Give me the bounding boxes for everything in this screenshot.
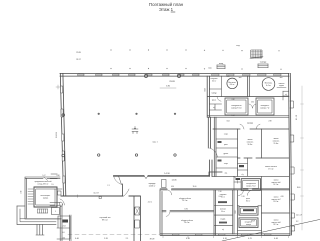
svg-text:вход: вход bbox=[236, 45, 239, 47]
door arc hall right wall bbox=[210, 148, 218, 157]
svg-text:11.72: 11.72 bbox=[93, 193, 99, 195]
svg-text:19.91: 19.91 bbox=[56, 131, 58, 137]
small room label bbox=[238, 164, 248, 171]
svg-text:0.98: 0.98 bbox=[57, 175, 60, 177]
svg-text:склад 28.5 м²: склад 28.5 м² bbox=[37, 183, 49, 186]
wall y129 bbox=[213, 128, 289, 130]
pipes below cluster bbox=[36, 225, 44, 235]
svg-text:с/у: с/у bbox=[285, 94, 287, 96]
bottom small cold boxes bbox=[215, 190, 235, 234]
hall left wall (double with windows) bbox=[60, 73, 66, 196]
diagonal leader line bbox=[222, 219, 320, 241]
svg-text:28.17: 28.17 bbox=[76, 59, 81, 61]
svg-text:Этаж 1: Этаж 1 bbox=[159, 7, 174, 12]
svg-text:6.08: 6.08 bbox=[205, 88, 207, 91]
left wall porch stubs bbox=[50, 174, 57, 179]
svg-text:29.89: 29.89 bbox=[76, 52, 81, 54]
svg-text:лит. 2-9: лит. 2-9 bbox=[296, 215, 302, 217]
cluster lower wall bbox=[20, 218, 61, 220]
svg-text:2.04: 2.04 bbox=[219, 196, 222, 198]
svg-text:отдыха: отдыха bbox=[279, 85, 284, 87]
right wall window tabs bbox=[290, 86, 304, 231]
right outer dimension line bbox=[301, 86, 304, 230]
entrance stair symbol 2 bbox=[258, 62, 268, 68]
svg-text:1.30: 1.30 bbox=[62, 238, 65, 240]
svg-text:14.30: 14.30 bbox=[164, 173, 170, 175]
svg-text:с/у: с/у bbox=[213, 107, 215, 109]
svg-text:6.40: 6.40 bbox=[75, 238, 79, 240]
svg-text:зал: зал bbox=[239, 77, 242, 79]
svg-text:тамб.: тамб. bbox=[208, 68, 212, 70]
wall below cold rooms bbox=[208, 116, 290, 118]
svg-text:сануз.: сануз. bbox=[224, 134, 229, 136]
svg-text:комната: комната bbox=[279, 83, 285, 85]
svg-text:3.04: 3.04 bbox=[227, 121, 230, 123]
entrance stair symbol 1 bbox=[217, 63, 225, 69]
svg-text:29.89: 29.89 bbox=[169, 81, 175, 83]
svg-text:камера 9.6 м²: камера 9.6 м² bbox=[231, 106, 242, 109]
bottom dimension ticks bbox=[163, 236, 289, 238]
stairs ticks below machine room bbox=[38, 209, 48, 213]
rooms in y177-193 strip bbox=[261, 176, 263, 190]
corridor wall y176 bbox=[114, 175, 290, 177]
svg-text:8.60: 8.60 bbox=[297, 187, 300, 189]
svg-text:2.04: 2.04 bbox=[62, 226, 65, 228]
wall y158 bbox=[238, 157, 290, 159]
room y158-176 divider bbox=[247, 158, 249, 176]
tick on bottom wall bbox=[77, 195, 79, 198]
hall grid dots row2 (hollow) bbox=[98, 154, 100, 156]
door arcs bottom block bbox=[167, 190, 252, 196]
door slot in wall under circle1 bbox=[231, 96, 235, 98]
svg-text:лестн.: лестн. bbox=[148, 202, 153, 204]
svg-text:сануз.: сануз. bbox=[224, 163, 229, 165]
bottom-left cluster outer walls bbox=[25, 177, 61, 219]
left column stack walls bbox=[233, 190, 235, 234]
svg-text:4.20: 4.20 bbox=[280, 196, 283, 198]
svg-text:4.45: 4.45 bbox=[227, 76, 230, 78]
svg-text:кор.: кор. bbox=[225, 173, 228, 175]
two rooms y129-158 divider bbox=[261, 129, 263, 158]
hall top wall (double line with window openings) bbox=[60, 73, 289, 76]
bottom block top wall bbox=[160, 189, 289, 191]
lower-left L corridor outer bbox=[17, 206, 56, 225]
bottom wall window slots bbox=[173, 234, 272, 235]
svg-text:холодильная: холодильная bbox=[246, 183, 256, 185]
middle column bottom wall bbox=[238, 230, 262, 232]
inner machine room (double wall) bbox=[34, 187, 57, 207]
svg-text:кладовая: кладовая bbox=[211, 78, 218, 80]
vertical wall pair bbox=[60, 205, 62, 241]
svg-text:17.5 м²: 17.5 м² bbox=[268, 168, 274, 171]
hatched stair block upper bbox=[250, 50, 263, 59]
lift boxes bbox=[135, 207, 140, 228]
svg-text:с/у: с/у bbox=[222, 229, 224, 231]
hall right wall bbox=[207, 76, 212, 176]
svg-text:с/у: с/у bbox=[241, 174, 243, 176]
underline under floor number bbox=[171, 11, 175, 13]
svg-text:жилая: жилая bbox=[274, 197, 279, 199]
svg-text:4.46: 4.46 bbox=[274, 238, 278, 240]
svg-text:кладов.: кладов. bbox=[220, 219, 226, 221]
building right wall bbox=[289, 73, 292, 235]
column circles on top wall bbox=[144, 74, 147, 77]
bottom block bottom wall bbox=[161, 234, 291, 236]
svg-text:39.09: 39.09 bbox=[150, 239, 155, 241]
svg-text:1.20: 1.20 bbox=[241, 196, 244, 198]
svg-text:пом. 1: пом. 1 bbox=[152, 142, 157, 144]
door arc right of machine room bbox=[60, 199, 65, 205]
cold box in strip bbox=[241, 179, 260, 191]
svg-text:6.4 м²: 6.4 м² bbox=[230, 83, 235, 86]
svg-text:89.5 м²: 89.5 м² bbox=[102, 219, 108, 222]
strip small room left of cold box bbox=[234, 176, 241, 190]
stub wall left of hall bottom corner bbox=[55, 188, 62, 190]
svg-text:жилая: жилая bbox=[274, 180, 279, 182]
title: Поэтажный план bbox=[149, 2, 184, 12]
middle column rooms x214-240 bbox=[214, 117, 237, 176]
svg-text:1.07: 1.07 bbox=[43, 175, 46, 177]
svg-text:тамбур: тамбур bbox=[260, 62, 267, 64]
wall under round rooms bbox=[208, 96, 290, 98]
svg-text:зал: зал bbox=[280, 77, 283, 79]
svg-text:2.1: 2.1 bbox=[126, 238, 129, 240]
svg-text:1.90: 1.90 bbox=[219, 191, 222, 193]
svg-text:11.60: 11.60 bbox=[193, 186, 197, 188]
svg-text:умыв.: умыв. bbox=[224, 144, 229, 146]
door arc left column bbox=[217, 97, 221, 102]
arcs between cold rooms bbox=[249, 104, 256, 108]
svg-text:3.2: 3.2 bbox=[296, 221, 298, 223]
door arc bottom wall bbox=[124, 189, 129, 196]
toilet ellipse bbox=[59, 202, 62, 206]
pilaster left of block bbox=[162, 180, 167, 188]
svg-text:вход: вход bbox=[219, 63, 224, 65]
svg-text:2.1: 2.1 bbox=[107, 185, 109, 187]
svg-text:камера 7 м²: камера 7 м² bbox=[260, 106, 270, 109]
svg-text:вентиляцион.: вентиляцион. bbox=[40, 195, 51, 197]
svg-text:0.90: 0.90 bbox=[251, 102, 254, 104]
svg-text:5.20: 5.20 bbox=[104, 238, 108, 240]
svg-text:4.0: 4.0 bbox=[62, 232, 64, 234]
svg-text:камера: камера bbox=[43, 197, 48, 199]
svg-text:6.08: 6.08 bbox=[235, 210, 237, 213]
bottom wall left faint bbox=[68, 234, 160, 236]
svg-text:16.2м²: 16.2м² bbox=[247, 143, 252, 146]
corridor north wall (hall bottom right) bbox=[114, 172, 223, 176]
round room 1 bbox=[227, 78, 238, 89]
svg-text:камера: камера bbox=[246, 224, 251, 226]
door arcs corridor bbox=[240, 124, 260, 129]
svg-text:моечная: моечная bbox=[220, 209, 226, 211]
svg-text:15.9м²: 15.9м² bbox=[273, 142, 278, 145]
small rooms right of cluster bbox=[52, 208, 71, 240]
svg-text:кладовая: кладовая bbox=[220, 194, 227, 196]
svg-text:14.06: 14.06 bbox=[171, 180, 177, 182]
svg-text:жилая: жилая bbox=[274, 220, 279, 222]
svg-text:умыв.: умыв. bbox=[212, 100, 217, 102]
svg-text:1Э: 1Э bbox=[52, 184, 55, 186]
dimension line inside hall left bbox=[160, 87, 176, 89]
left small mark bbox=[56, 85, 60, 89]
dark label in middle room bbox=[63, 220, 69, 223]
hall inner corner wall bbox=[122, 184, 124, 196]
hall center level mark bbox=[132, 127, 138, 134]
svg-text:39.09: 39.09 bbox=[251, 221, 255, 223]
svg-text:кухня: кухня bbox=[246, 198, 250, 200]
cluster door marks top bbox=[44, 177, 48, 181]
dimension ticks above hall bbox=[110, 49, 281, 69]
svg-text:4.25: 4.25 bbox=[248, 238, 252, 240]
hall top wall window marks bbox=[78, 74, 199, 76]
svg-text:2.98: 2.98 bbox=[269, 121, 272, 123]
svg-text:6.4 м²: 6.4 м² bbox=[266, 84, 271, 87]
svg-text:41.10: 41.10 bbox=[296, 114, 298, 120]
left wall window marks bbox=[61, 86, 65, 183]
svg-text:5: 5 bbox=[55, 211, 56, 213]
round room 2 bbox=[262, 78, 275, 91]
lift shaft walls bbox=[134, 196, 141, 241]
svg-text:24.4 м²: 24.4 м² bbox=[184, 221, 190, 224]
svg-text:тамбур: тамбур bbox=[211, 93, 216, 95]
svg-text:14.06 м²: 14.06 м² bbox=[149, 185, 156, 188]
second vertical wall pair bbox=[70, 215, 72, 241]
svg-text:коридор: коридор bbox=[247, 123, 253, 125]
bottom block dividers bbox=[214, 190, 262, 235]
ladder lane left of machine room bbox=[28, 189, 33, 204]
door arc at corridor east end bbox=[234, 177, 238, 184]
divider between round rooms bbox=[248, 76, 250, 96]
connecting lines bbox=[50, 203, 60, 206]
svg-text:4.50: 4.50 bbox=[171, 186, 174, 188]
small mark near hall bottom door bbox=[99, 197, 101, 199]
bottom block middle wall bbox=[162, 210, 214, 212]
door leaf at corridor west end bbox=[119, 176, 122, 185]
right column wall bbox=[262, 212, 290, 214]
middle column walls bbox=[238, 205, 262, 207]
svg-text:торговый зал: торговый зал bbox=[99, 216, 110, 219]
svg-text:3.10: 3.10 bbox=[21, 190, 23, 193]
svg-text:1.64: 1.64 bbox=[232, 115, 235, 117]
lower-left L top link bbox=[17, 205, 25, 207]
svg-text:5.96: 5.96 bbox=[184, 208, 187, 210]
svg-text:26.1 м²: 26.1 м² bbox=[182, 199, 188, 202]
hall bottom-left wall bbox=[61, 195, 140, 197]
hall grid dots row1 bbox=[98, 113, 176, 115]
lower-left L corridor inner bbox=[20, 209, 56, 222]
left column small rooms in top-right block bbox=[209, 76, 221, 110]
svg-text:6.30: 6.30 bbox=[186, 238, 190, 240]
top-right wall window openings bbox=[212, 74, 281, 76]
door notch corridor bbox=[144, 176, 148, 179]
cold room 1 (double walls) bbox=[225, 98, 248, 115]
small corner room top-right bbox=[283, 91, 289, 100]
bottom block left wall bbox=[160, 190, 162, 235]
svg-text:душев.: душев. bbox=[224, 153, 229, 155]
middle column cold boxes bbox=[239, 207, 258, 228]
svg-text:4.10: 4.10 bbox=[223, 238, 227, 240]
door arc strip cold box bbox=[239, 190, 244, 195]
svg-text:5.86: 5.86 bbox=[166, 86, 170, 88]
bottom dimension texts bbox=[75, 238, 278, 241]
left wall column circles bbox=[62, 114, 65, 117]
cold room 2 (double walls) bbox=[256, 98, 274, 115]
